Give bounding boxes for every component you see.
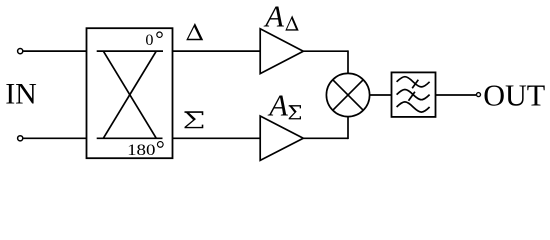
terminal output (477, 93, 481, 97)
hybrid crossover diagonal B (103, 51, 156, 138)
hybrid coupler box (87, 28, 173, 158)
svg-text:0: 0 (145, 31, 153, 49)
wire amp A-Sigma to mixer (horizontal) (303, 137, 348, 139)
svg-text:A: A (263, 0, 284, 34)
wire filter to output terminal (436, 94, 477, 96)
wire input bottom to hybrid (23, 137, 86, 139)
svg-text:A: A (267, 88, 288, 122)
wire up into mixer bottom (347, 117, 349, 140)
wire down into mixer top (347, 50, 349, 73)
amplifier A-Sigma triangle (260, 116, 303, 160)
svg-text:180: 180 (127, 141, 155, 159)
wire amp A-Delta to mixer (horizontal) (303, 50, 348, 52)
node Sigma label (185, 111, 204, 128)
wire hybrid to amp A-Delta (173, 50, 261, 52)
filter box (392, 72, 436, 117)
amplifier A-Delta triangle (260, 29, 303, 74)
filter wave top (397, 77, 430, 87)
hybrid crossover top bar (97, 50, 163, 52)
mixer X stroke B (333, 80, 364, 111)
filter wave bottom (397, 102, 430, 112)
wire mixer to filter (370, 94, 392, 96)
mixer X stroke A (333, 80, 364, 111)
filter wave middle (397, 90, 430, 100)
wire input top to hybrid (23, 50, 86, 52)
filter wave middle slash (409, 92, 415, 101)
terminal input top (18, 49, 23, 54)
wire hybrid to amp A-Sigma (173, 137, 261, 139)
svg-text:IN: IN (5, 77, 37, 110)
mixer circle (326, 73, 369, 116)
svg-text:OUT: OUT (483, 78, 545, 113)
hybrid crossover bottom bar (97, 137, 163, 139)
terminal input bottom (18, 136, 23, 141)
node Delta label (186, 23, 203, 40)
hybrid crossover diagonal A (103, 51, 156, 138)
filter wave top slash (412, 80, 418, 89)
